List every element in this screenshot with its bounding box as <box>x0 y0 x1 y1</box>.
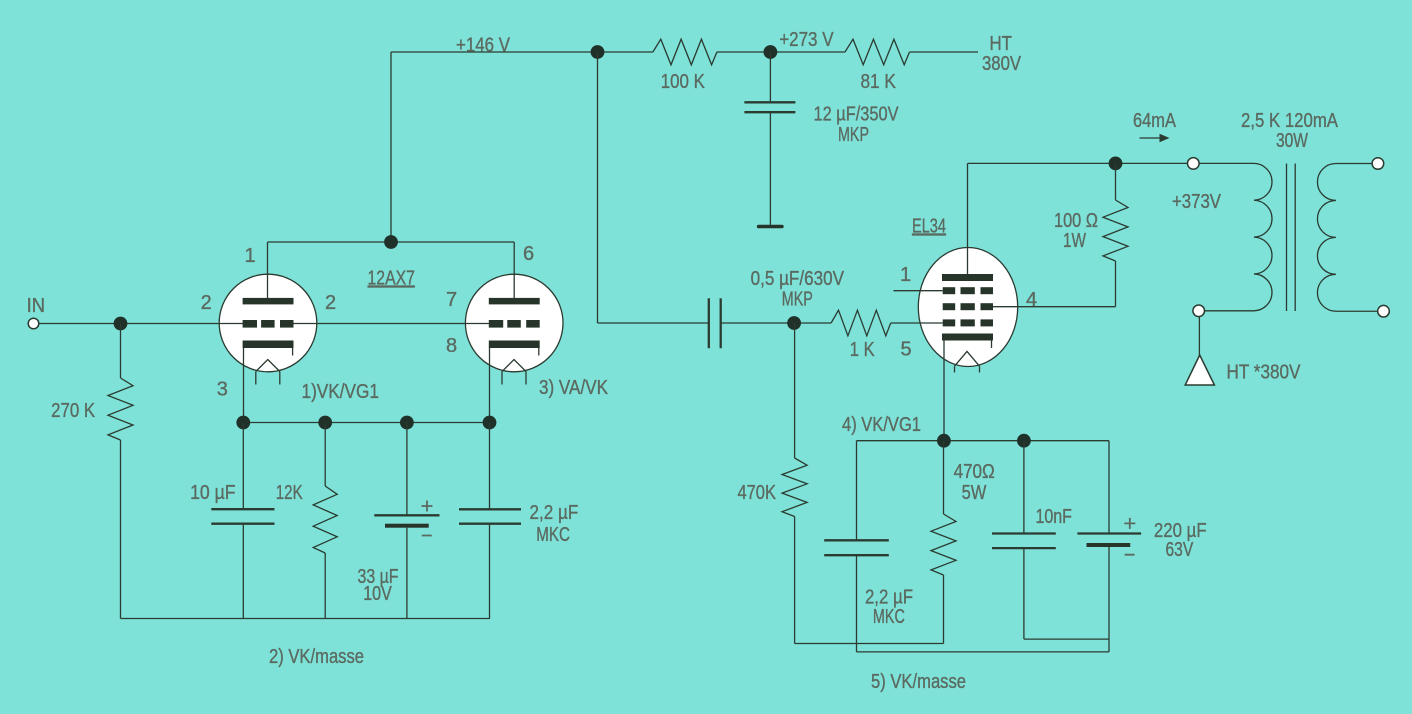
svg-text:470K: 470K <box>737 482 776 504</box>
svg-text:6: 6 <box>523 243 534 265</box>
svg-text:63V: 63V <box>1166 539 1194 561</box>
svg-text:4: 4 <box>1026 289 1037 311</box>
svg-text:10V: 10V <box>363 583 392 605</box>
svg-text:MKP: MKP <box>838 124 869 146</box>
svg-text:12K: 12K <box>276 482 303 504</box>
svg-text:5W: 5W <box>962 482 987 504</box>
svg-text:2,5 K 120mA: 2,5 K 120mA <box>1241 110 1339 132</box>
svg-text:10 µF: 10 µF <box>190 482 235 504</box>
svg-text:1 K: 1 K <box>850 339 875 361</box>
svg-text:2,2 µF: 2,2 µF <box>530 502 579 524</box>
svg-text:8: 8 <box>446 335 457 357</box>
svg-text:100 Ω: 100 Ω <box>1054 210 1098 232</box>
svg-text:IN: IN <box>27 295 45 317</box>
svg-text:7: 7 <box>446 289 457 311</box>
svg-text:EL34: EL34 <box>912 216 946 238</box>
svg-text:2) VK/masse: 2) VK/masse <box>269 646 364 668</box>
svg-text:+273 V: +273 V <box>779 29 834 51</box>
svg-text:2: 2 <box>201 292 212 314</box>
svg-text:1)VK/VG1: 1)VK/VG1 <box>302 381 380 403</box>
svg-text:64mA: 64mA <box>1133 110 1177 132</box>
svg-text:0,5 µF/630V: 0,5 µF/630V <box>751 268 845 290</box>
svg-text:4) VK/VG1: 4) VK/VG1 <box>842 414 921 436</box>
svg-text:12 µF/350V: 12 µF/350V <box>814 104 900 126</box>
svg-text:MKC: MKC <box>873 606 905 628</box>
svg-text:MKC: MKC <box>536 524 570 546</box>
svg-text:HT *380V: HT *380V <box>1227 362 1302 384</box>
svg-text:5: 5 <box>900 339 911 361</box>
svg-text:2: 2 <box>325 292 336 314</box>
svg-text:270 K: 270 K <box>51 400 96 422</box>
svg-text:380V: 380V <box>982 53 1022 75</box>
svg-text:3: 3 <box>217 379 228 401</box>
svg-text:10nF: 10nF <box>1035 506 1072 528</box>
svg-text:1: 1 <box>900 264 911 286</box>
svg-text:MKP: MKP <box>782 289 813 311</box>
svg-text:12AX7: 12AX7 <box>368 268 415 290</box>
svg-text:470Ω: 470Ω <box>954 461 995 483</box>
svg-text:3) VA/VK: 3) VA/VK <box>539 377 609 399</box>
svg-text:30W: 30W <box>1276 130 1308 152</box>
svg-text:HT: HT <box>989 33 1012 55</box>
svg-text:+373V: +373V <box>1172 191 1222 213</box>
svg-text:100 K: 100 K <box>661 71 706 93</box>
svg-text:1W: 1W <box>1063 230 1086 252</box>
svg-text:5) VK/masse: 5) VK/masse <box>871 671 966 693</box>
svg-text:+146 V: +146 V <box>456 35 511 57</box>
svg-text:1: 1 <box>244 245 255 267</box>
svg-text:81 K: 81 K <box>860 71 896 93</box>
